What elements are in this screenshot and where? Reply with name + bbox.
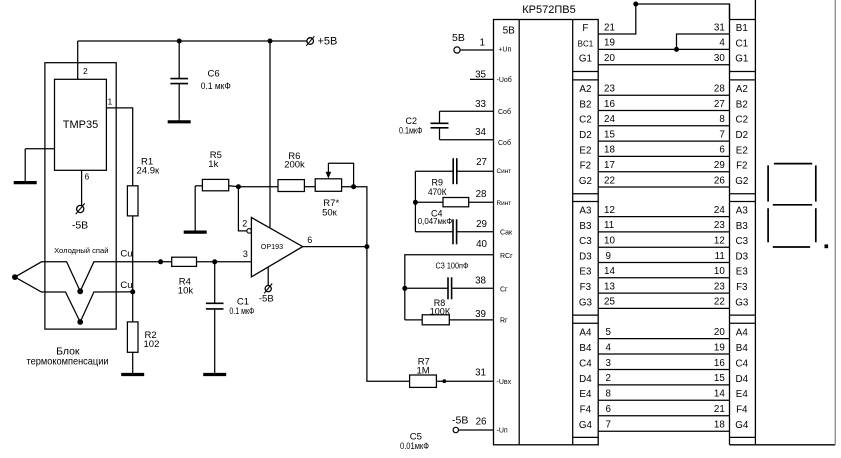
svg-text:30: 30 [714, 53, 725, 64]
opamp -supply stub [267, 267, 269, 285]
ground under C6 [168, 120, 191, 122]
capacitor Cint pin27 [415, 158, 493, 184]
svg-text:7: 7 [719, 129, 724, 140]
resistor R8 pin39 [405, 315, 494, 325]
svg-text:15: 15 [604, 129, 615, 140]
svg-text:+5В: +5В [318, 36, 338, 48]
svg-text:термокомпенсации: термокомпенсации [27, 356, 109, 368]
svg-text:F2: F2 [736, 161, 747, 172]
potentiometer R7* [315, 179, 341, 192]
svg-text:23: 23 [714, 281, 725, 292]
svg-text:Холодный спай: Холодный спай [54, 246, 108, 255]
IC U2 KR572PV5 outline [494, 20, 599, 445]
svg-text:102: 102 [144, 339, 160, 350]
node C1 tap [212, 259, 217, 264]
svg-text:E4: E4 [736, 389, 749, 400]
wire opamp output [303, 246, 367, 248]
svg-text:A3: A3 [736, 206, 749, 217]
svg-text:2: 2 [242, 218, 247, 228]
capacitor C1 [206, 262, 224, 373]
svg-text:29: 29 [714, 160, 725, 171]
svg-text:13: 13 [604, 281, 615, 292]
wire R5 left to ground [184, 186, 207, 232]
IC inner line right [572, 20, 574, 445]
IC right pin numbers [604, 22, 615, 430]
svg-text:21: 21 [604, 22, 615, 33]
wire R6 to R7 [304, 186, 315, 188]
svg-text:6: 6 [85, 172, 90, 182]
svg-text:КР572ПВ5: КР572ПВ5 [522, 4, 575, 16]
wire R5 to node [229, 185, 239, 188]
svg-text:Rг: Rг [500, 318, 508, 325]
sensor TMP35 [55, 79, 107, 170]
svg-text:C2: C2 [736, 115, 749, 126]
wire BC1 row [598, 48, 729, 50]
svg-text:G4: G4 [735, 420, 749, 431]
svg-text:F3: F3 [580, 282, 592, 293]
wire R1 to R2 node [132, 216, 134, 322]
wire thermocouple A [15, 262, 172, 292]
wire +5V rail [78, 40, 307, 42]
svg-text:C3: C3 [736, 236, 749, 247]
svg-text:D4: D4 [736, 374, 749, 385]
node R9 rail [413, 200, 418, 205]
svg-text:31: 31 [714, 22, 725, 33]
svg-text:3: 3 [243, 249, 248, 259]
svg-text:29: 29 [476, 219, 487, 230]
capacitor C6 [170, 41, 188, 120]
node C6 tap [177, 39, 182, 44]
7-segment digit segment A [774, 163, 812, 165]
svg-text:11: 11 [604, 220, 614, 231]
display bottom edge [730, 444, 836, 446]
display pin numbers [714, 22, 725, 430]
svg-text:21: 21 [714, 404, 725, 415]
svg-text:25: 25 [604, 297, 615, 308]
svg-text:40: 40 [476, 239, 487, 250]
resistor R7 1M [410, 375, 437, 387]
wire G1 row [598, 64, 729, 66]
svg-text:39: 39 [475, 309, 486, 320]
svg-text:38: 38 [475, 276, 486, 287]
svg-text:23: 23 [604, 84, 615, 95]
wire thermocouple B [15, 277, 133, 322]
svg-text:B2: B2 [736, 99, 748, 110]
node R5/R6/pin2 [236, 184, 241, 189]
svg-text:6: 6 [719, 145, 725, 156]
7-segment digit segment B [815, 165, 817, 201]
wire pin1 to R1 [106, 108, 132, 186]
7-segment digit segment F [767, 165, 769, 201]
svg-text:-Uп: -Uп [497, 428, 508, 435]
column divider lines [573, 72, 756, 438]
svg-text:B2: B2 [579, 99, 591, 110]
svg-text:-Uоб: -Uоб [497, 76, 512, 84]
svg-text:Сак: Сак [500, 229, 513, 236]
svg-text:100К: 100К [430, 306, 451, 316]
svg-text:1: 1 [108, 97, 113, 107]
svg-text:A2: A2 [579, 84, 591, 95]
7-segment digit segment C [815, 208, 817, 242]
node pin31 tap [442, 379, 446, 383]
terminal +5V [306, 36, 314, 46]
resistor R4 [172, 257, 197, 266]
node junction B [77, 319, 83, 325]
node R1/R2/Cu junction [130, 289, 135, 294]
svg-text:-5В: -5В [259, 294, 274, 305]
pin2 inverting circle [247, 229, 252, 234]
R7 wiper arrow [326, 163, 332, 178]
svg-text:Соб: Соб [498, 139, 511, 147]
capacitor C3 pin38 [405, 277, 494, 299]
svg-text:22: 22 [714, 297, 725, 308]
svg-text:4: 4 [719, 38, 725, 49]
svg-text:22: 22 [604, 175, 615, 186]
svg-text:0.1 мкФ: 0.1 мкФ [229, 306, 254, 317]
svg-text:10: 10 [604, 236, 615, 247]
display right edge [834, 0, 836, 445]
svg-text:2: 2 [83, 66, 88, 76]
svg-text:C3: C3 [579, 236, 592, 247]
node on Cu wire [158, 259, 163, 264]
wire TMP35 pin2 from rail [77, 41, 79, 79]
svg-text:7: 7 [606, 420, 611, 431]
svg-text:Cг: Cг [500, 286, 508, 293]
svg-text:G4: G4 [579, 420, 593, 431]
svg-text:C1: C1 [736, 38, 749, 49]
decimal point [825, 244, 829, 248]
svg-text:Соб: Соб [498, 108, 511, 116]
svg-text:E3: E3 [736, 267, 749, 278]
svg-text:D2: D2 [579, 130, 592, 141]
terminal -5V sensor [76, 203, 85, 214]
svg-text:8: 8 [719, 114, 725, 125]
svg-text:D3: D3 [579, 251, 592, 262]
svg-text:12: 12 [604, 205, 615, 216]
node op-amp supply tap [268, 39, 273, 44]
svg-text:14: 14 [714, 389, 725, 400]
svg-text:9: 9 [606, 251, 611, 262]
ground under C1 [203, 373, 226, 375]
svg-text:0.1мкФ: 0.1мкФ [399, 125, 423, 135]
svg-text:2: 2 [606, 373, 611, 384]
svg-text:28: 28 [714, 84, 725, 95]
svg-text:+Uп: +Uп [498, 47, 511, 54]
svg-text:26: 26 [714, 175, 725, 186]
IC left column pin names [497, 25, 516, 434]
svg-text:16: 16 [604, 99, 615, 110]
svg-text:0,047мкФ: 0,047мкФ [418, 216, 453, 226]
svg-text:Cинт: Cинт [497, 168, 512, 175]
svg-text:31: 31 [475, 367, 486, 378]
wire wiper to right [328, 163, 353, 187]
svg-text:5В: 5В [503, 25, 516, 36]
svg-text:5: 5 [606, 327, 612, 338]
svg-text:1: 1 [480, 38, 485, 49]
svg-text:-Uвх: -Uвх [497, 379, 512, 386]
svg-text:34: 34 [475, 127, 486, 138]
svg-text:24: 24 [604, 114, 615, 125]
node output [364, 244, 369, 249]
capacitor C2 with pins 33/34 [431, 111, 494, 140]
display column segment names [735, 23, 749, 431]
svg-text:C2: C2 [579, 115, 592, 126]
wire R7 to pin31 [436, 380, 493, 382]
svg-text:BC1: BC1 [578, 39, 594, 48]
svg-text:27: 27 [476, 157, 487, 168]
svg-text:19: 19 [714, 342, 725, 353]
svg-text:26: 26 [476, 417, 487, 428]
svg-text:G1: G1 [735, 54, 748, 65]
svg-text:B1: B1 [736, 23, 748, 34]
op-amp U1 OP193 [251, 218, 302, 277]
svg-text:G2: G2 [735, 176, 748, 187]
wire BC1 branch to B1 [677, 34, 730, 49]
7-segment digit segment D [773, 246, 810, 248]
wire node to R6 [238, 186, 278, 188]
svg-text:A2: A2 [736, 84, 748, 95]
wire output down [367, 247, 410, 382]
terminal 5V pin1 [452, 32, 494, 53]
IC right column segment names [578, 23, 594, 431]
svg-text:D4: D4 [579, 374, 592, 385]
svg-text:12: 12 [714, 236, 725, 247]
block box thermo-compensation [45, 63, 116, 329]
svg-text:С3 100пФ: С3 100пФ [436, 261, 469, 271]
svg-text:B4: B4 [579, 343, 592, 354]
svg-text:R9: R9 [432, 178, 444, 188]
node top corner [633, 2, 638, 7]
resistor R2 [127, 322, 138, 352]
wires segment rows [598, 95, 729, 431]
svg-text:1k: 1k [208, 159, 218, 170]
svg-text:C4: C4 [579, 358, 592, 369]
svg-text:D2: D2 [736, 130, 749, 141]
svg-text:20: 20 [604, 53, 615, 64]
7-segment digit segment E [767, 208, 769, 242]
svg-text:8: 8 [606, 389, 612, 400]
svg-text:G1: G1 [579, 54, 592, 65]
wire R7 to feedback corner [342, 187, 367, 247]
svg-text:18: 18 [604, 145, 615, 156]
node thermocouple left [12, 274, 18, 280]
terminal -5V pin26 [452, 415, 494, 433]
wire R2 to ground [121, 352, 144, 374]
svg-text:-5В: -5В [72, 220, 88, 232]
svg-text:200k: 200k [284, 160, 305, 171]
svg-text:4: 4 [606, 342, 612, 353]
svg-text:A3: A3 [579, 206, 592, 217]
svg-text:B4: B4 [736, 343, 749, 354]
resistor R5 [202, 179, 228, 190]
svg-text:50к: 50к [322, 208, 338, 219]
svg-text:B3: B3 [736, 221, 749, 232]
svg-text:TMP35: TMP35 [63, 119, 98, 131]
svg-text:D3: D3 [736, 251, 749, 262]
node C3 rail [402, 286, 407, 291]
svg-text:E3: E3 [579, 267, 592, 278]
node BC1 branch [674, 47, 679, 52]
svg-text:G2: G2 [579, 176, 592, 187]
svg-text:16: 16 [714, 358, 725, 369]
svg-text:-5В: -5В [452, 415, 468, 427]
svg-text:RCг: RCг [500, 253, 513, 260]
svg-text:Rинт: Rинт [497, 200, 512, 207]
svg-text:Cu: Cu [120, 249, 132, 260]
node R7 wiper join [351, 184, 356, 189]
svg-text:E2: E2 [736, 145, 748, 156]
svg-text:A4: A4 [579, 328, 592, 339]
svg-text:F: F [582, 23, 588, 34]
svg-text:17: 17 [604, 160, 615, 171]
capacitor C4 pin29 [415, 219, 493, 244]
display connector column [730, 0, 756, 445]
svg-text:G3: G3 [579, 297, 593, 308]
svg-text:1М: 1М [417, 366, 430, 377]
svg-text:18: 18 [714, 420, 725, 431]
svg-text:24.9к: 24.9к [137, 166, 160, 177]
svg-text:A4: A4 [736, 328, 749, 339]
svg-text:470К: 470К [428, 187, 447, 197]
svg-text:C4: C4 [736, 358, 749, 369]
svg-text:F3: F3 [736, 282, 748, 293]
svg-text:24: 24 [714, 205, 725, 216]
opamp +supply stub [269, 41, 271, 228]
node junction A [77, 288, 83, 294]
resistor R1 [127, 186, 138, 216]
svg-text:20: 20 [714, 327, 725, 338]
IC inner line left [518, 20, 520, 445]
svg-text:5В: 5В [452, 32, 465, 44]
svg-text:23: 23 [714, 220, 725, 231]
svg-text:0.1 мкФ: 0.1 мкФ [201, 81, 231, 92]
wire F to display top [598, 4, 729, 34]
pin 35 stub [470, 78, 494, 80]
wire R4 to pin3 [197, 261, 252, 263]
svg-text:C6: C6 [208, 68, 220, 79]
svg-text:3: 3 [606, 358, 612, 369]
svg-text:35: 35 [475, 69, 486, 80]
svg-text:Cu: Cu [120, 280, 132, 291]
7-segment digit segment G [773, 204, 812, 206]
svg-text:11: 11 [715, 251, 725, 262]
svg-text:0.01мкФ: 0.01мкФ [400, 441, 429, 452]
svg-text:14: 14 [604, 266, 615, 277]
svg-text:E4: E4 [579, 389, 592, 400]
svg-text:E2: E2 [579, 145, 591, 156]
wire pin40 [405, 255, 494, 320]
rail pin27-29 [414, 171, 416, 232]
svg-text:F2: F2 [580, 161, 591, 172]
svg-text:6: 6 [307, 235, 312, 245]
svg-text:B3: B3 [579, 221, 592, 232]
svg-text:OP193: OP193 [261, 242, 283, 251]
svg-text:19: 19 [604, 38, 615, 49]
svg-text:15: 15 [714, 373, 725, 384]
ground at TMP35 left [14, 149, 55, 183]
svg-text:F4: F4 [580, 405, 592, 416]
svg-text:F4: F4 [736, 405, 748, 416]
svg-text:6: 6 [606, 404, 612, 415]
wire pin2 route [238, 187, 246, 231]
svg-text:28: 28 [476, 189, 487, 200]
resistor R9 pin28 [415, 198, 493, 207]
svg-text:10k: 10k [178, 286, 194, 297]
svg-text:27: 27 [714, 99, 725, 110]
terminal -5V opamp [264, 284, 272, 294]
IC left pin numbers [475, 38, 487, 428]
svg-text:10: 10 [714, 266, 725, 277]
resistor R6 [278, 180, 304, 192]
svg-text:G3: G3 [735, 297, 749, 308]
svg-text:33: 33 [475, 99, 486, 110]
wire pin6 down [81, 170, 83, 205]
